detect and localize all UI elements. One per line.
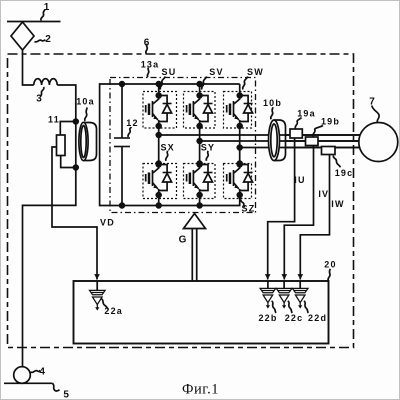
svg-text:SY: SY: [201, 143, 215, 153]
svg-text:22a: 22a: [104, 306, 123, 316]
svg-text:2: 2: [45, 34, 52, 45]
svg-text:G: G: [179, 235, 188, 246]
svg-text:7: 7: [369, 97, 376, 108]
svg-text:6: 6: [144, 38, 151, 49]
svg-text:IW: IW: [331, 199, 344, 209]
svg-text:19b: 19b: [321, 117, 340, 127]
svg-text:22d: 22d: [308, 313, 327, 323]
svg-text:4: 4: [39, 367, 46, 378]
svg-text:Фиг.1: Фиг.1: [182, 382, 219, 398]
svg-text:SV: SV: [209, 67, 223, 77]
svg-text:12: 12: [126, 118, 138, 128]
svg-text:1: 1: [44, 2, 51, 13]
svg-text:22c: 22c: [285, 313, 304, 323]
svg-text:5: 5: [63, 390, 70, 400]
svg-text:SX: SX: [160, 143, 174, 153]
svg-text:20: 20: [324, 260, 336, 270]
svg-text:11: 11: [48, 115, 60, 125]
svg-text:IU: IU: [294, 175, 305, 185]
svg-text:VD: VD: [100, 218, 115, 228]
svg-text:13a: 13a: [141, 60, 160, 70]
svg-text:SU: SU: [162, 67, 177, 77]
svg-text:SZ: SZ: [242, 204, 256, 214]
svg-text:IV: IV: [318, 189, 329, 199]
svg-text:19c: 19c: [335, 168, 354, 178]
svg-text:3: 3: [36, 94, 43, 105]
svg-text:SW: SW: [247, 67, 264, 77]
svg-text:10b: 10b: [263, 98, 282, 108]
svg-text:10a: 10a: [76, 97, 95, 107]
svg-text:22b: 22b: [258, 313, 277, 323]
svg-text:19a: 19a: [297, 109, 316, 119]
